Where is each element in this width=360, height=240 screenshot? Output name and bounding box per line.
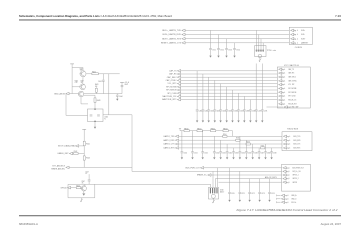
svg-text:C462: C462 [210,111,214,113]
capacitor in U450 [90,115,93,116]
wire C568 ground stem [265,153,267,158]
svg-text:.pag.5: .pag.5 [286,167,290,169]
svg-text:BUS_TXD: BUS_TXD [293,136,301,138]
wire C550 drop [181,131,183,152]
wire net EXT_MICV [69,166,132,168]
resistor R448 [94,98,96,102]
capacitor C571 [238,192,241,193]
ground [258,200,260,202]
svg-text:C563: C563 [235,152,239,154]
wire chain segment [180,130,184,132]
svg-text:C468: C468 [246,111,250,113]
wire C570 drop [229,168,231,192]
pin BUS_RXD [283,139,286,142]
wire C547 stem [88,174,90,180]
wire C560 drop [213,136,215,151]
wire net CAP_/SYNC [181,79,278,81]
capacitor C444 [116,95,119,96]
svg-text:CABLE_DET: CABLE_DET [57,152,69,155]
wire net SPI_MISOB [181,89,278,91]
resistor R443 [95,88,97,92]
wire Q440 output [86,73,92,75]
svg-text:TP750: TP750 [267,50,272,52]
wire C753 drop [226,39,228,49]
wire U750 pin 2 drop [258,35,260,53]
resistor R541 [83,141,85,146]
capacitor C572 [248,192,251,193]
ferrite FB552 [211,130,216,132]
wire C564 drop [239,136,241,151]
svg-text:SPI_MOSIB: SPI_MOSIB [288,88,296,90]
wire C751 drop [210,30,212,48]
wire C441 drop [102,74,104,80]
ground [181,157,183,159]
wire C573 drop [259,179,261,193]
svg-text:.pag.5: .pag.5 [286,171,290,173]
pin BUS_PWR_OUT [283,167,286,170]
svg-text:.pag.5: .pag.5 [286,175,290,177]
capacitor C460 [196,110,199,111]
wire U560 pin4 riser [217,168,219,188]
U450 top pad [94,109,96,110]
svg-text:NAUT2L/B_CS#: NAUT2L/B_CS# [162,95,177,98]
ground [259,59,262,62]
capacitor C753 [225,49,228,50]
wire net SPARE_IO+ [211,174,282,176]
svg-text:SW_B+: SW_B+ [291,202,296,204]
svg-text:BOOT_DATA_ENA: BOOT_DATA_ENA [58,145,75,148]
capacitor C568 [264,152,267,153]
wire C752 ground stem [218,50,220,56]
array U560 body [209,187,219,199]
transistor Q440 [80,71,86,77]
svg-text:C574: C574 [271,193,275,195]
svg-text:SPI_CLKB: SPI_CLKB [288,96,295,98]
ground [239,200,241,202]
svg-text:RESET_UARTB_CTS: RESET_UARTB_CTS [161,42,182,45]
svg-text:FB553: FB553 [223,128,227,130]
filter U750 body [255,46,266,57]
svg-text:7-36: 7-36 [335,14,341,18]
wire U750 pin 4 drop [262,43,264,52]
VCC rail +5V [120,81,124,83]
svg-text:.pag.4: .pag.4 [281,69,285,71]
svg-text:.pag.4: .pag.4 [281,80,285,82]
svg-text:C751: C751 [212,49,216,51]
wire Q440-Q441 link [82,77,84,84]
svg-text:R542: R542 [74,151,78,153]
ground [208,121,210,123]
wire Q540 collector [84,184,86,186]
wire C569 ground stem [271,153,273,158]
capacitor C466 [231,110,234,111]
ground [252,157,254,159]
wire net RESET_UARTB_CTS [185,42,289,44]
wire stub net GND_D [277,198,281,200]
svg-text:.pag.4: .pag.4 [281,100,285,102]
svg-text:R557: R557 [261,145,265,147]
ferrite FB553 [223,130,228,132]
svg-text:CAP_/SYNC: CAP_/SYNC [166,79,178,82]
connector J2 CH BUS box [289,27,312,44]
resistor R543 [83,156,85,160]
wire C560 ground stem [213,153,215,158]
capacitor C469 [249,110,252,111]
ground [226,121,228,123]
ground [239,157,241,159]
svg-text:FB550: FB550 [184,128,188,130]
svg-text:R554: R554 [223,134,227,136]
svg-text:.pag.4: .pag.4 [281,96,285,98]
wire net UART4_RXD left [179,139,236,141]
svg-text:U560: U560 [220,190,224,192]
svg-text:GND_D: GND_D [291,198,297,200]
ground [270,157,272,159]
svg-text:.pag. 4.: .pag. 4. [293,30,299,32]
wire loop bottom [68,197,95,199]
ground [220,157,222,159]
wire C460 ground stem [196,111,198,121]
wire C552 drop [202,131,204,152]
pin CAP_SEL2 [279,76,282,79]
svg-text:C444: C444 [119,96,123,98]
wire net UART4_CTS left [179,143,246,145]
svg-text:BUS_PWR_OUT: BUS_PWR_OUT [186,168,201,170]
svg-text:Figure 7-17. HUD4E2/5B/HUE4E4/: Figure 7-17. HUD4E2/5B/HUE4E4/04 Control… [237,208,338,212]
svg-text:.pag.6: .pag.6 [286,148,290,150]
wire C469 drop [249,100,251,110]
svg-text:.pag.4: .pag.4 [281,92,285,94]
wire C566 drop [252,144,254,152]
VCC rail [82,128,86,130]
svg-text:GPIO8: GPIO8 [292,182,297,184]
ground [226,157,228,159]
wire C471 ground stem [261,111,263,121]
wire U450 ground stem [94,122,96,127]
wire stub net SW_B+ [277,201,281,203]
wire R448 to filter [94,102,96,109]
U560 pin pads [210,188,217,193]
wire C461 ground stem [202,111,204,121]
svg-text:C445: C445 [124,84,128,86]
connector J5 box [282,164,311,191]
svg-text:R543: R543 [86,158,90,160]
wire net UART4_TXD right [227,135,282,137]
svg-text:GND_A: GND_A [291,194,296,197]
capacitor C547 [88,180,91,181]
capacitor C754 [233,49,236,50]
wire C751 ground stem [210,50,212,56]
capacitor C563 [232,152,235,153]
capacitor C562 [226,152,229,153]
svg-text:SPI_MISOB: SPI_MISOB [166,90,177,92]
pin BUSY [291,37,294,40]
wire net CAP_RX [181,73,278,75]
pin GPIO5_1 [283,174,286,177]
wire net VCL_INT# [181,83,278,85]
wire C573 ground stem [259,194,261,200]
wire net CAP_SEL2 [181,76,278,78]
capacitor C566 [251,152,254,153]
svg-text:6816959H01-A: 6816959H01-A [19,222,38,226]
wire stub net GND_A [277,195,281,197]
svg-text:August 24, 2007: August 24, 2007 [321,222,342,226]
svg-text:SPI_MISOB: SPI_MISOB [288,92,296,94]
wire C463 ground stem [214,111,216,121]
svg-text:C573: C573 [261,193,265,195]
wire C569 drop [271,148,273,152]
ground [80,199,83,202]
wire C754 ground stem [234,50,236,56]
wire chain segment [228,131,232,137]
pin GND_D [281,198,284,201]
pin BUS_RTS [283,147,286,150]
capacitor C462 [207,110,210,111]
svg-text:GPIO5_2: GPIO5_2 [292,178,298,180]
svg-text:BUSY: BUSY [301,38,305,40]
svg-text:.pag.4: .pag.4 [281,73,285,75]
resistor R542 [74,153,79,155]
ground [243,121,245,123]
svg-text:C551: C551 [194,152,198,154]
wire Q442 emitter [81,97,88,104]
svg-text:VCL_INT#: VCL_INT# [168,83,178,85]
capacitor C752 [217,49,220,50]
wire net UART4_RTS left [179,147,261,149]
capacitor C567 [258,152,261,153]
wire net SPI_CLKB [181,92,278,94]
wire net CABLE_DET left [72,153,75,155]
wire U560 pin3 riser [214,179,216,188]
svg-text:BUS-: BUS- [301,34,305,36]
wire C467 ground stem [238,111,240,121]
svg-text:R555: R555 [236,138,240,140]
wire R443 lower stem [95,92,97,93]
svg-text:.pag.4: .pag.4 [281,88,285,90]
svg-text:BUS+: BUS+ [301,30,305,32]
wire net R546 out [80,187,83,189]
capacitor C464 [219,110,222,111]
svg-text:.pag.4: .pag.4 [281,103,285,105]
wire U450 left net [66,94,88,116]
wire U560 ground stem [212,198,214,201]
capacitor C550 [181,152,184,153]
svg-text:NAUT2L/B_INT#: NAUT2L/B_INT# [162,98,177,101]
svg-text:BUS-_UARTB_RXD: BUS-_UARTB_RXD [163,33,182,36]
wire VCC stem [72,64,83,71]
ground [209,56,211,58]
svg-text:CAP_SEL2: CAP_SEL2 [167,76,177,79]
svg-text:R443: R443 [95,84,99,86]
wire C462 drop [208,77,210,110]
pin SW_B+_CH [283,170,286,173]
wire C567 ground stem [258,153,260,158]
resistor R557 [261,147,265,149]
pin VCL_INT [279,83,282,86]
svg-text:+5V_A: +5V_A [124,81,128,84]
wire C567 drop [258,148,260,152]
svg-text:1K: 1K [81,82,83,84]
wire pullup net [83,146,85,168]
wire VCC +5V stem [121,82,123,93]
capacitor C552 [201,152,204,153]
wire C547 lower stem [88,181,90,184]
svg-text:SPI_MOSIB: SPI_MOSIB [166,86,177,88]
svg-text:.pag.6: .pag.6 [286,144,290,146]
wire net BUS_PWR_OUT [204,167,282,169]
svg-text:.pag.6: .pag.6 [284,198,288,200]
capacitor C573 [258,192,261,193]
capacitor C560 [213,152,216,153]
capacitor C468 [243,110,246,111]
wire net to filter [108,74,110,115]
svg-text:BUS+_UARTB_TXD: BUS+_UARTB_TXD [162,29,181,32]
svg-text:.pag. 4.: .pag. 4. [293,34,299,36]
capacitor C463 [213,110,216,111]
wire C752 drop [218,35,220,49]
wire C468 ground stem [243,111,245,121]
ground [231,121,233,123]
resistor R442 [92,73,98,75]
ground [202,157,204,159]
svg-text:.pag.5: .pag.5 [286,178,290,180]
wire net UART4_TXD left [179,135,223,137]
pin NT2L/B_INT [279,102,282,105]
ground [248,200,250,202]
wire C470 drop [255,64,257,110]
wire VCC stem [83,129,85,141]
ground [94,127,96,129]
wire C572 ground stem [249,194,251,200]
pin GND_A [281,194,284,197]
svg-text:R541: R541 [86,143,90,145]
svg-text:SPI_CLKB: SPI_CLKB [167,93,177,95]
svg-text:C753: C753 [228,49,232,51]
capacitor C565 [245,152,248,153]
wire C570 ground stem [229,194,231,200]
wire GND stub net [267,106,284,108]
svg-text:EXT_A/B_MICV: EXT_A/B_MICV [52,165,65,168]
footer rule [19,215,341,216]
svg-text:VCC / NAUT2L-B: VCC / NAUT2L-B [284,64,299,67]
ground [237,121,239,123]
VCC rail [70,63,74,65]
wire C465 drop [226,87,228,110]
wire C466 drop [232,90,234,110]
svg-text:.pag.6: .pag.6 [284,195,288,197]
ferrite FB550 [184,130,189,132]
capacitor C470 [255,110,258,111]
svg-text:Schematics, Component Location: Schematics, Component Location Diagrams,… [19,14,172,18]
svg-text:RS232 BUS: RS232 BUS [287,129,298,131]
ground [196,121,198,123]
wire C471 drop [261,64,263,110]
ferrite FB551 [197,130,202,132]
wire chain segment [189,130,197,132]
svg-text:CAP_RX: CAP_RX [169,73,177,76]
pin GND_CAP stub [284,106,287,109]
transistor Q540 [81,186,86,191]
wire C572 drop [249,179,251,193]
wire net NAUT2L/B_INT# [181,99,278,101]
pin (A)RESET [291,42,294,45]
wire U750 pin 3 drop [260,39,262,52]
resistor R546 [76,187,81,189]
pin GPIO8 [283,181,286,184]
wire C566 ground stem [252,153,254,158]
svg-text:0.1: 0.1 [85,173,87,175]
svg-text:.pag.5: .pag.5 [286,182,290,184]
svg-text:C566: C566 [254,152,258,154]
capacitor C551 [191,152,194,153]
resistor R555 [236,139,240,141]
svg-text:R442: R442 [92,71,96,73]
pin CAP_TX [279,68,282,71]
svg-text:SPARE_A/B_MIC: SPARE_A/B_MIC [51,167,66,170]
wire net BUS+_UARTB_TXD [185,29,289,31]
svg-text:UART4_RTS: UART4_RTS [163,147,175,150]
svg-text:CH BUS: CH BUS [295,47,303,49]
header rule [19,19,341,20]
wire U560 pin2 riser [212,171,214,187]
wire C463 drop [214,80,216,109]
svg-text:SW_B+_CH: SW_B+_CH [292,171,300,173]
svg-text:C550: C550 [184,152,188,154]
wire chain segment [202,130,210,132]
wire BUS power chain stub [179,128,181,130]
wire U450 right net [103,115,132,168]
wire C563 ground stem [233,153,235,158]
wire C461 drop [202,74,204,110]
wire C571 drop [239,171,241,192]
svg-text:FL: FL [104,118,106,120]
wire net GND_A/DIG [69,93,78,95]
pin GPIO5_2 [283,177,286,180]
wire C562 drop [226,144,228,152]
pin SPI_MOSIB [279,87,282,90]
wire C565 ground stem [245,153,247,158]
wire C469 ground stem [249,111,251,121]
connector J3 box [277,67,310,108]
ground [264,157,266,159]
ground [116,99,118,101]
wire U750 ground stem [259,57,261,61]
wire net GND_A/DIG right [84,93,122,95]
svg-text:C562: C562 [229,152,233,154]
wire C551 ground stem [192,153,194,158]
U560 case circle [211,194,215,198]
svg-text:C464: C464 [222,111,226,113]
ground [225,56,227,58]
wire net CAP_TX [181,70,278,72]
svg-text:BUS_PWR_OUT: BUS_PWR_OUT [292,167,304,169]
svg-text:C571: C571 [241,193,245,195]
wire net audio line [68,183,211,185]
svg-text:.pag.6: .pag.6 [286,140,290,142]
svg-text:FB552: FB552 [211,128,215,130]
wire C565 drop [245,140,247,151]
wire net Q440 collector [98,73,119,75]
svg-text:BUS_RXD: BUS_RXD [293,140,301,142]
wire C465 ground stem [226,111,228,121]
transistor Q441 [80,84,86,90]
capacitor C574 [268,192,271,193]
ground [219,121,221,123]
svg-text:BUSY_UARTB_RTS: BUSY_UARTB_RTS [162,37,181,40]
wire C466 ground stem [232,111,234,121]
transistor Q442 [78,91,83,96]
svg-text:U450: U450 [104,117,108,119]
